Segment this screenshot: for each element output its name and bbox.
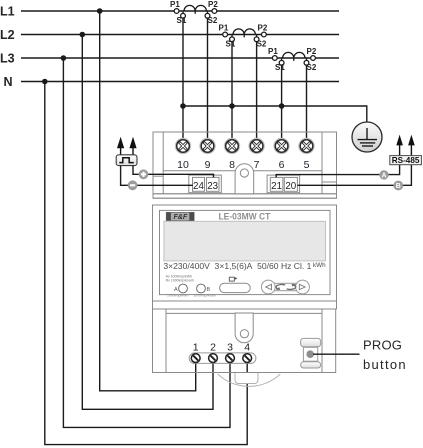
IR port icon <box>229 277 236 281</box>
svg-text:kWh: kWh <box>313 262 326 269</box>
meter top terminal block <box>153 132 337 198</box>
impulse output arrows <box>117 137 137 148</box>
terminal number labels 10 9 8 7 6 5 <box>177 159 309 171</box>
wire L1 drop to terminal 1 <box>100 11 196 391</box>
svg-text:P1: P1 <box>268 47 278 56</box>
svg-text:S1: S1 <box>275 63 285 72</box>
DIN clip arc <box>218 374 281 386</box>
bottom screw 2 <box>209 354 218 363</box>
junction L2 <box>80 32 86 38</box>
svg-text:P1: P1 <box>170 0 180 9</box>
wire CT2 S2 to terminal 7 <box>256 42 258 141</box>
svg-text:A: A <box>174 287 178 293</box>
svg-text:F&F: F&F <box>173 214 187 221</box>
svg-text:6: 6 <box>279 159 285 171</box>
svg-text:21: 21 <box>271 181 282 192</box>
svg-text:P1: P1 <box>219 24 229 33</box>
svg-text:7: 7 <box>254 159 260 171</box>
svg-text:L2: L2 <box>0 28 15 42</box>
svg-text:P2: P2 <box>307 47 317 56</box>
current transformer CT3 on L3 <box>272 52 315 65</box>
wire CT3 S1 to terminal 6 <box>281 65 283 140</box>
wire L3 line <box>21 57 339 59</box>
RS-485 label box <box>390 156 422 165</box>
LCD display <box>164 221 326 261</box>
meter face panel <box>160 210 331 294</box>
svg-text:1: 1 <box>193 342 199 354</box>
wire PROG pointer <box>313 353 360 355</box>
wire L1 line <box>21 10 339 12</box>
svg-text:LE-03MW CT: LE-03MW CT <box>219 211 271 222</box>
bottom tab hole <box>240 330 248 338</box>
wire S1 common earth line <box>183 106 367 123</box>
svg-text:L1: L1 <box>0 4 15 18</box>
oval button <box>220 283 251 292</box>
svg-text:RS-485: RS-485 <box>392 156 420 165</box>
svg-text:B: B <box>207 287 211 293</box>
bottom terminal numbers 1 2 3 4 <box>193 342 251 354</box>
wire CT3 S2 to terminal 5 <box>306 65 308 140</box>
junction N <box>42 79 48 85</box>
svg-text:button: button <box>363 357 407 372</box>
terminal screw 5 <box>299 139 313 153</box>
plus polarity bead <box>139 169 149 179</box>
svg-text:5: 5 <box>304 159 310 171</box>
junction L1 <box>97 8 103 14</box>
current transformer CT1 on L1 <box>174 5 217 18</box>
svg-text:P2: P2 <box>258 24 268 33</box>
bottom terminal strip <box>189 353 256 364</box>
top tab hole <box>240 169 248 177</box>
svg-text:PROG: PROG <box>363 337 402 352</box>
impulse output box S0 <box>116 155 137 166</box>
svg-text:1000imp/kWh: 1000imp/kWh <box>167 293 188 297</box>
svg-text:N: N <box>4 75 13 89</box>
impulse waveform glyph <box>119 158 134 163</box>
svg-text:S2: S2 <box>257 39 267 48</box>
svg-text:L3: L3 <box>0 51 15 65</box>
wire CT1 S1 to terminal 10 <box>182 18 184 140</box>
RS-485 B bead <box>393 181 403 191</box>
wire L2 line <box>21 34 339 36</box>
terminal screw 9 <box>200 139 214 153</box>
svg-text:10: 10 <box>177 159 189 171</box>
wire CT1 S2 to terminal 9 <box>207 18 209 140</box>
svg-text:S1: S1 <box>177 16 187 25</box>
svg-text:S1: S1 <box>226 39 236 48</box>
terminal box 21 20 <box>267 175 300 193</box>
svg-text:2: 2 <box>210 342 216 354</box>
junction L3 <box>61 55 67 61</box>
svg-text:24: 24 <box>193 181 204 192</box>
wire N drop to terminal 4 <box>45 82 247 445</box>
svg-text:S2: S2 <box>208 16 218 25</box>
minus polarity bead <box>128 180 138 190</box>
RS-485 A bead <box>379 170 388 179</box>
svg-text:9: 9 <box>205 159 211 171</box>
PROG button assembly <box>301 338 321 368</box>
wire N line <box>21 81 339 83</box>
top block bottom strip <box>153 194 337 198</box>
RS-485 arrows <box>396 135 414 146</box>
wire impulse minus to terminal 24 <box>121 166 193 186</box>
svg-text:20: 20 <box>285 181 296 192</box>
svg-text:A: A <box>381 173 386 180</box>
wire terminal 20 to RS-485 B <box>297 165 411 186</box>
wire CT2 S1 to terminal 8 <box>231 42 233 141</box>
wire terminal 21 to RS-485 A <box>276 165 399 178</box>
terminal screw 7 <box>249 139 263 153</box>
svg-text:Rv 1000imp/kvarh: Rv 1000imp/kvarh <box>166 278 194 282</box>
meter bottom terminal block <box>153 309 336 373</box>
wire L3 drop to terminal 3 <box>63 58 230 427</box>
svg-text:P2: P2 <box>208 0 218 9</box>
LED B indicator <box>197 284 206 293</box>
navigation button cluster <box>261 280 309 294</box>
F&F logo <box>166 212 194 221</box>
svg-text:3: 3 <box>227 342 233 354</box>
bottom mounting tab <box>235 313 253 343</box>
wire impulse plus to terminal 23 <box>133 166 214 178</box>
terminal screw 6 <box>274 139 288 153</box>
svg-text:8: 8 <box>229 159 235 171</box>
terminal screw 10 <box>176 139 190 153</box>
junction S1 CT2 <box>229 103 235 109</box>
wire L2 drop to terminal 2 <box>82 35 213 410</box>
junction S1 CT3 <box>279 103 285 109</box>
bottom screw 3 <box>226 354 235 363</box>
bottom screw 1 <box>191 354 200 363</box>
svg-text:3×230/400V 3×1,5(6)A 50/60 H: 3×230/400V 3×1,5(6)A 50/60 Hz Cl. 1 <box>163 262 311 271</box>
earth electrode symbol <box>352 122 382 152</box>
terminal screw 8 <box>225 139 239 153</box>
bottom screw 4 <box>243 354 252 363</box>
svg-text:B: B <box>396 183 401 190</box>
junction S1 CT1 <box>180 103 186 109</box>
svg-text:23: 23 <box>207 181 218 192</box>
meter main body <box>153 205 337 301</box>
svg-text:S2: S2 <box>307 63 317 72</box>
DIN clip tongue <box>235 373 258 384</box>
svg-text:4: 4 <box>244 342 250 354</box>
svg-text:1000imp/kvarh: 1000imp/kvarh <box>193 293 216 297</box>
terminal box 24 23 <box>189 175 222 193</box>
band between body and bottom block <box>153 301 337 309</box>
top mounting tab <box>235 164 254 194</box>
current transformer CT2 on L2 <box>223 29 267 42</box>
